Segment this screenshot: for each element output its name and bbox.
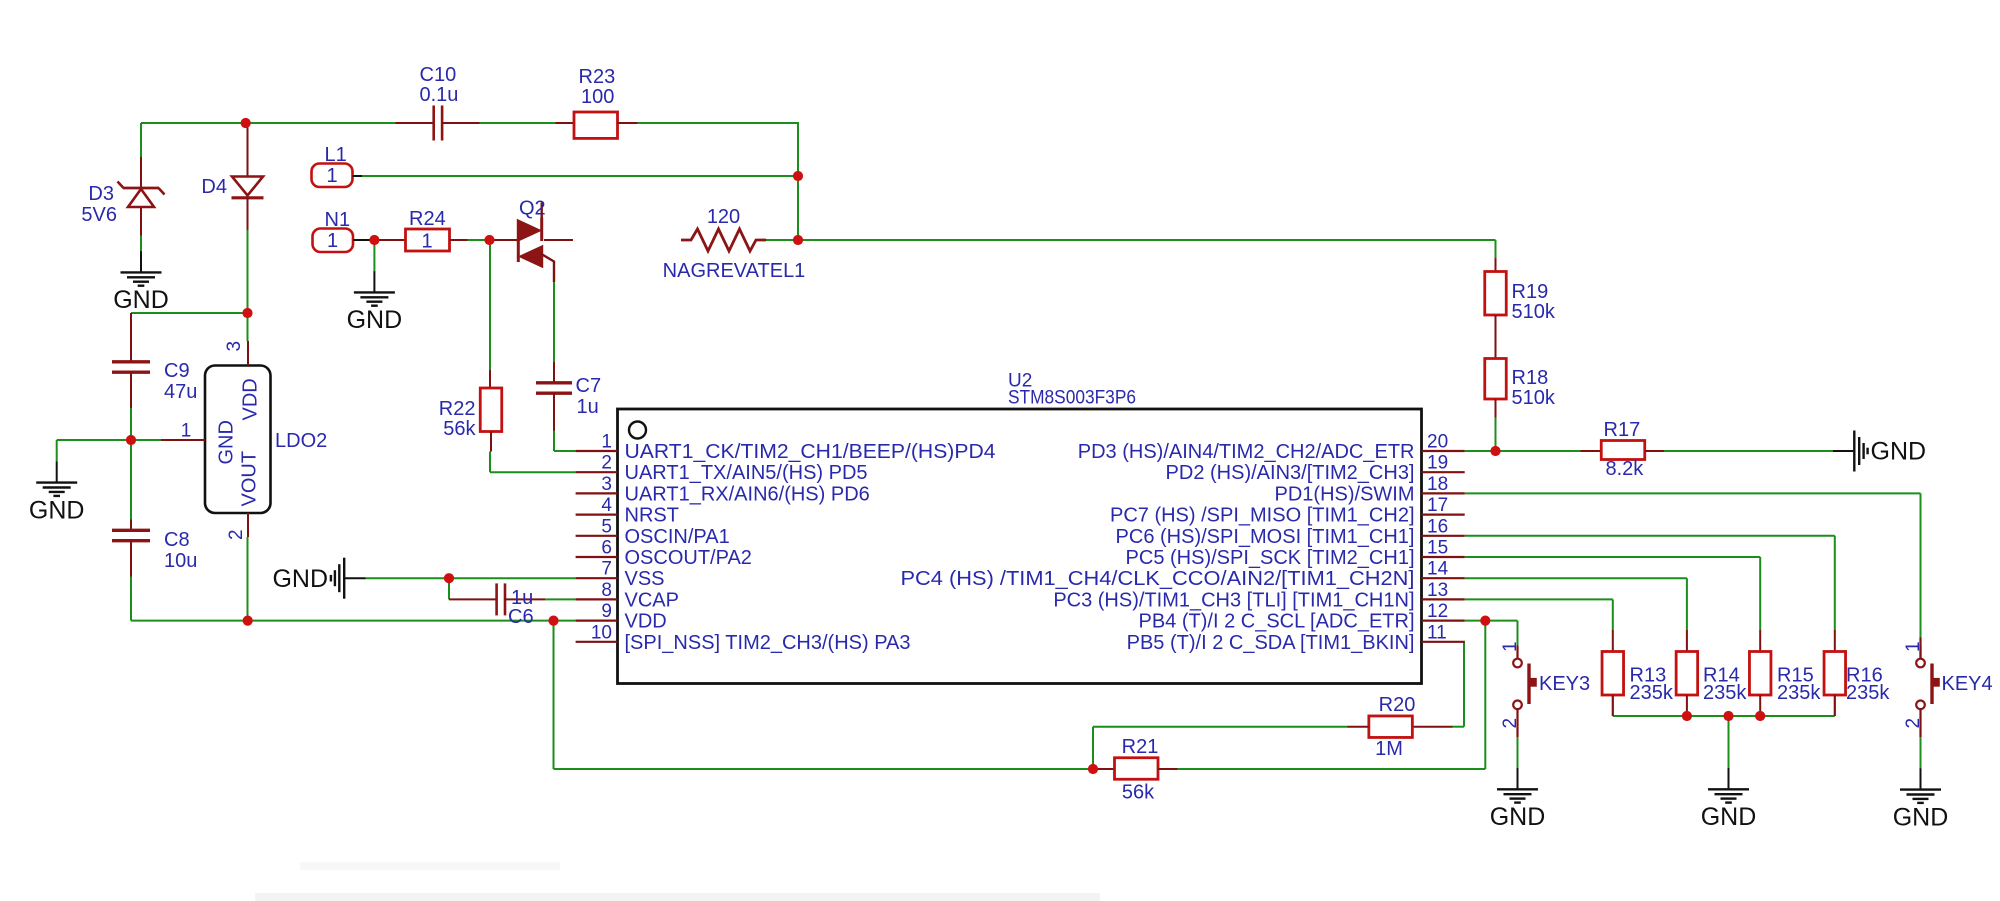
svg-text:VCAP: VCAP: [625, 589, 679, 611]
pin 14 PC4: [901, 559, 1465, 591]
svg-text:GND: GND: [1490, 803, 1546, 831]
resistor R22 56k: [439, 370, 502, 452]
junction node VCC/D4: [241, 118, 251, 128]
svg-text:0.1u: 0.1u: [420, 84, 459, 106]
pin 3 UART1_RX: [576, 474, 870, 506]
svg-text:15: 15: [1427, 538, 1448, 559]
connector L1: [312, 144, 363, 187]
svg-text:20: 20: [1427, 432, 1448, 453]
svg-text:C6: C6: [508, 606, 534, 628]
wire C6 to pin8: [545, 598, 576, 600]
wire D4 bottom to node: [247, 230, 249, 313]
svg-text:235k: 235k: [1703, 682, 1747, 704]
svg-text:10: 10: [591, 622, 612, 643]
svg-text:235k: 235k: [1846, 682, 1890, 704]
wire C7 to pin1: [554, 431, 576, 452]
svg-text:N1: N1: [325, 209, 351, 231]
junction node LDO VOUT: [243, 616, 253, 626]
pin 4 NRST: [576, 495, 679, 526]
svg-text:PC5 (HS)/SPI_SCK [TIM2_CH1]: PC5 (HS)/SPI_SCK [TIM2_CH1]: [1126, 547, 1415, 569]
svg-text:2: 2: [1500, 718, 1521, 729]
svg-text:235k: 235k: [1777, 682, 1821, 704]
svg-text:3: 3: [224, 341, 245, 352]
svg-text:D3: D3: [88, 183, 114, 205]
svg-text:GND: GND: [272, 565, 328, 593]
pin 19 PD2: [1166, 453, 1465, 485]
svg-text:1: 1: [421, 231, 432, 253]
wire pin20 to node20: [1465, 450, 1496, 452]
pin 8 VCAP: [576, 580, 679, 612]
wire VCC top rail: [141, 122, 798, 240]
svg-text:235k: 235k: [1630, 682, 1674, 704]
svg-text:GND: GND: [1871, 438, 1927, 466]
svg-text:R18: R18: [1512, 367, 1549, 389]
wire KEY3 pin2 down: [1517, 737, 1519, 769]
svg-text:R22: R22: [439, 398, 476, 420]
svg-text:VDD: VDD: [240, 378, 262, 420]
capacitor C10 0.1u: [396, 64, 480, 141]
wire Q2 gate down to C7: [553, 282, 555, 362]
svg-text:GND: GND: [1893, 803, 1949, 831]
svg-text:PB5 (T)/I 2 C_SDA [TIM1_BKIN]: PB5 (T)/I 2 C_SDA [TIM1_BKIN]: [1127, 632, 1415, 654]
svg-text:R20: R20: [1379, 694, 1416, 716]
svg-text:7: 7: [601, 559, 612, 580]
svg-text:4: 4: [601, 495, 612, 516]
wire node20 to R17: [1496, 450, 1581, 452]
svg-text:8.2k: 8.2k: [1606, 458, 1645, 480]
svg-text:9: 9: [601, 601, 612, 622]
wire C9 to GND node: [130, 408, 132, 441]
svg-text:PC3 (HS)/TIM1_CH3 [TLI] [TIM1_: PC3 (HS)/TIM1_CH3 [TLI] [TIM1_CH1N]: [1053, 589, 1414, 611]
pin 15 PC5: [1126, 538, 1465, 570]
faint artifact row: [255, 862, 1100, 901]
junction node VSS/C6: [444, 573, 454, 583]
wire R20 to R21 node: [1093, 727, 1348, 769]
wire R21 to pin12 node: [1178, 768, 1486, 770]
svg-text:C9: C9: [164, 360, 190, 382]
svg-text:510k: 510k: [1512, 301, 1556, 323]
svg-text:1: 1: [601, 432, 612, 453]
connector N1: [313, 209, 371, 252]
wire resistor bottom rail: [1613, 695, 1835, 716]
svg-text:5V6: 5V6: [81, 204, 117, 226]
svg-text:GND: GND: [216, 420, 238, 464]
svg-text:LDO2: LDO2: [275, 430, 327, 452]
svg-text:1M: 1M: [1375, 738, 1403, 760]
svg-text:8: 8: [601, 580, 612, 601]
junction node rail GND: [1723, 711, 1733, 721]
svg-text:1u: 1u: [577, 396, 599, 418]
wire pin12 node down: [1484, 621, 1486, 769]
resistor R19 510k: [1485, 258, 1556, 323]
capacitor C9 47u: [112, 313, 197, 408]
pin 7 VSS: [576, 559, 665, 591]
svg-text:PC6 (HS)/SPI_MOSI [TIM1_CH1]: PC6 (HS)/SPI_MOSI [TIM1_CH1]: [1116, 526, 1415, 548]
svg-text:PC4 (HS) /TIM1_CH4/CLK_CCO/AIN: PC4 (HS) /TIM1_CH4/CLK_CCO/AIN2/[TIM1_CH…: [901, 568, 1415, 590]
svg-text:11: 11: [1427, 622, 1447, 643]
wire C8 to bottom rail: [131, 544, 554, 621]
pin 18 PD1(HS)/SWIM: [1275, 474, 1465, 506]
junction node R14 bottom: [1682, 711, 1692, 721]
wire Q2 node down to R22: [489, 240, 491, 370]
junction node pin20/R18/R17: [1490, 446, 1500, 456]
svg-text:NRST: NRST: [625, 505, 679, 527]
push button KEY3: [1500, 641, 1590, 737]
junction node D4/LDO VDD: [242, 308, 252, 318]
junction node VDD pin9: [548, 616, 558, 626]
svg-text:VSS: VSS: [625, 568, 665, 590]
wire LDO pin2 down: [247, 537, 249, 621]
svg-text:3: 3: [601, 474, 612, 495]
wire D3 to GND: [140, 236, 142, 252]
svg-text:C8: C8: [164, 529, 190, 551]
capacitor C8 10u: [112, 520, 197, 577]
wire pin13 to R13: [1465, 599, 1613, 630]
svg-text:1: 1: [1500, 641, 1521, 652]
resistor R17 8.2k: [1581, 419, 1665, 480]
svg-text:KEY3: KEY3: [1539, 673, 1590, 695]
voltage regulator LDO2: [161, 341, 327, 540]
svg-text:13: 13: [1427, 580, 1448, 601]
ground left of C9: [29, 461, 85, 524]
wire pin9 to bottom rail: [554, 620, 576, 622]
svg-text:2: 2: [1903, 718, 1924, 729]
svg-text:L1: L1: [325, 144, 347, 166]
pin 9 VDD: [576, 601, 667, 633]
IC U2 STM8S003F3P6: [618, 371, 1422, 684]
wire node to left GND: [57, 440, 131, 461]
svg-text:12: 12: [1427, 601, 1448, 622]
svg-text:510k: 510k: [1512, 387, 1556, 409]
pin 11 PB5: [1127, 622, 1465, 654]
svg-text:16: 16: [1427, 516, 1448, 537]
resistor R18 510k: [1485, 315, 1556, 418]
wire VSS GND to pin7: [366, 577, 576, 579]
wire node to C9 branch: [131, 312, 248, 314]
ground below KEY3: [1490, 768, 1546, 831]
svg-text:D4: D4: [201, 176, 227, 198]
resistor R14 235k: [1676, 630, 1747, 716]
wire pin12 to node: [1465, 620, 1486, 622]
svg-text:R19: R19: [1512, 281, 1549, 303]
resistor R20 1M: [1348, 694, 1453, 760]
svg-text:1: 1: [327, 230, 338, 252]
wire D3 top lead: [140, 123, 142, 157]
svg-text:C10: C10: [420, 64, 457, 86]
svg-text:6: 6: [601, 538, 612, 559]
capacitor C7 1u: [536, 362, 601, 431]
wire rail GND drop: [1728, 716, 1730, 768]
pin 10 [SPI_NSS] TIM2_CH3: [576, 622, 911, 654]
svg-text:OSCIN/PA1: OSCIN/PA1: [625, 526, 730, 548]
pin 5 OSCIN: [576, 516, 730, 548]
svg-text:10u: 10u: [164, 550, 197, 572]
svg-text:PD1(HS)/SWIM: PD1(HS)/SWIM: [1275, 483, 1415, 505]
svg-text:PD2 (HS)/AIN3/[TIM2_CH3]: PD2 (HS)/AIN3/[TIM2_CH3]: [1166, 462, 1415, 484]
junction node R24/Q2/R22: [484, 235, 494, 245]
svg-text:R24: R24: [409, 208, 446, 230]
pin 1 UART1_CK: [576, 432, 996, 464]
svg-text:GND: GND: [113, 286, 169, 314]
wire R22 to pin2: [490, 452, 576, 473]
svg-text:UART1_RX/AIN6/(HS) PD6: UART1_RX/AIN6/(HS) PD6: [625, 483, 870, 505]
svg-text:56k: 56k: [1122, 782, 1155, 804]
wire L1 to rail: [362, 175, 798, 177]
ground below resistor rail: [1701, 768, 1757, 831]
junction node R21/R20: [1088, 764, 1098, 774]
junction node R15 bottom: [1755, 711, 1765, 721]
svg-text:NAGREVATEL1: NAGREVATEL1: [663, 260, 806, 282]
wire node down to C8: [130, 440, 132, 520]
ground below N1: [347, 271, 403, 334]
svg-text:R23: R23: [579, 66, 616, 88]
junction node N1: [369, 235, 379, 245]
push button KEY4: [1903, 638, 1993, 738]
junction node L1: [793, 171, 803, 181]
pin 13 PC3: [1053, 580, 1464, 612]
svg-text:PC7 (HS) /SPI_MISO [TIM1_CH2]: PC7 (HS) /SPI_MISO [TIM1_CH2]: [1110, 505, 1415, 527]
pin 17 PC7: [1110, 495, 1465, 526]
wire R17 to GND: [1664, 450, 1833, 452]
pin 16 PC6: [1116, 516, 1465, 548]
resistor R23 100: [556, 66, 638, 138]
resistor R13 235k: [1602, 630, 1674, 716]
wire bottom rail down: [554, 621, 1094, 769]
wire LDO pin3 up: [247, 313, 249, 341]
pin 20 PD3: [1078, 432, 1465, 464]
svg-text:R21: R21: [1122, 736, 1159, 758]
resistor R21 56k: [1093, 736, 1178, 804]
ground below D3: [113, 251, 169, 314]
svg-text:C7: C7: [576, 375, 602, 397]
svg-text:PB4 (T)/I 2 C_SCL [ADC_ETR]: PB4 (T)/I 2 C_SCL [ADC_ETR]: [1139, 611, 1415, 633]
svg-text:120: 120: [707, 206, 740, 228]
svg-text:14: 14: [1427, 559, 1449, 580]
svg-text:GND: GND: [29, 496, 85, 524]
junction node heater out: [793, 235, 803, 245]
svg-text:17: 17: [1427, 495, 1448, 516]
junction node pin12/KEY3: [1480, 616, 1490, 626]
svg-text:VOUT: VOUT: [239, 451, 261, 507]
resistor 120 NAGREVATEL1: [663, 206, 806, 282]
svg-text:56k: 56k: [443, 418, 476, 440]
svg-text:OSCOUT/PA2: OSCOUT/PA2: [625, 547, 752, 569]
svg-text:2: 2: [226, 529, 247, 540]
wire pin12 node to KEY3: [1485, 621, 1517, 646]
svg-text:5: 5: [601, 516, 612, 537]
pin 6 OSCOUT: [576, 538, 752, 570]
svg-text:PD3 (HS)/AIN4/TIM2_CH2/ADC_ETR: PD3 (HS)/AIN4/TIM2_CH2/ADC_ETR: [1078, 441, 1415, 463]
svg-text:47u: 47u: [164, 381, 197, 403]
svg-text:19: 19: [1427, 453, 1448, 474]
svg-text:GND: GND: [1701, 803, 1757, 831]
ground right of R17: [1833, 431, 1926, 472]
svg-text:GND: GND: [347, 306, 403, 334]
pin 2 UART1_TX: [576, 453, 868, 485]
svg-text:VDD: VDD: [625, 611, 667, 633]
zener diode D3 5V6: [81, 157, 164, 236]
svg-text:1: 1: [326, 165, 337, 187]
ground at VSS: [272, 558, 365, 599]
pin 12 PB4: [1139, 601, 1465, 633]
svg-text:18: 18: [1427, 474, 1448, 495]
wire node to LDO pin1: [131, 439, 161, 441]
wire R18 bottom to node20: [1495, 418, 1497, 452]
resistor R15 235k: [1749, 630, 1821, 716]
wire C6 branch down: [448, 578, 450, 599]
diode D4: [201, 123, 263, 230]
triac Q2: [490, 198, 574, 283]
svg-text:R17: R17: [1604, 419, 1641, 441]
svg-text:KEY4: KEY4: [1942, 673, 1993, 695]
svg-text:2: 2: [601, 453, 612, 474]
capacitor C6 1u: [449, 583, 545, 628]
wire pin11 to R20: [1453, 642, 1465, 727]
wire pin16 to R16: [1465, 536, 1835, 630]
svg-text:UART1_CK/TIM2_CH1/BEEP/(HS)PD4: UART1_CK/TIM2_CH1/BEEP/(HS)PD4: [625, 441, 996, 463]
wire pin14 to R14: [1465, 578, 1687, 630]
svg-text:[SPI_NSS] TIM2_CH3/(HS) PA3: [SPI_NSS] TIM2_CH3/(HS) PA3: [625, 632, 911, 654]
ground below KEY4: [1893, 768, 1949, 831]
resistor R24 1: [374, 208, 467, 253]
svg-text:Q2: Q2: [519, 198, 546, 220]
svg-text:100: 100: [581, 86, 614, 108]
wire triac output to R19: [766, 240, 1496, 258]
wire pin15 to R15: [1465, 557, 1761, 630]
wire KEY4 pin2 down: [1920, 737, 1922, 769]
wire R24 to Q2 node: [468, 239, 490, 241]
svg-text:1: 1: [181, 421, 192, 442]
wire N1 GND drop: [373, 240, 375, 271]
svg-text:STM8S003F3P6: STM8S003F3P6: [1008, 388, 1136, 409]
resistor R16 235k: [1824, 630, 1890, 716]
junction node C9/GND/LDO1: [126, 435, 136, 445]
wire pin18 to KEY4: [1465, 493, 1921, 637]
svg-text:UART1_TX/AIN5/(HS) PD5: UART1_TX/AIN5/(HS) PD5: [625, 462, 868, 484]
